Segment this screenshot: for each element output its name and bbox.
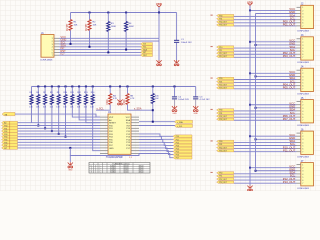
wire R11 top lead (71, 87, 73, 95)
svg-text:P41: P41 (219, 144, 222, 146)
svg-text:s_SCL: s_SCL (177, 126, 182, 128)
svg-text:10K: 10K (74, 24, 78, 26)
junction R15 top (152, 86, 154, 88)
wire stack row 9 to U1 (18, 147, 101, 149)
svg-text:DVPP: DVPP (84, 23, 88, 31)
svg-text:P17: P17 (176, 158, 179, 160)
wire row1 VCC (59, 37, 159, 39)
wire R5 bottom lead (31, 105, 33, 123)
wire row2 GND (59, 40, 159, 42)
svg-text:P02_OUT: P02_OUT (219, 22, 227, 24)
svg-text:P40: P40 (219, 141, 222, 143)
wire J2 pin6 (234, 22, 297, 24)
wire stack row 2 to U1 (18, 127, 101, 129)
svg-text:VDD: VDD (105, 99, 109, 105)
net label tick S2 (211, 46, 213, 47)
svg-text:GND: GND (68, 170, 73, 172)
wire J2 pin7 (234, 25, 297, 27)
junction bottom route (69, 147, 71, 149)
wire row y=49.6 (59, 49, 141, 51)
wire J6 GND (256, 138, 297, 140)
svg-text:0: 0 (95, 170, 96, 172)
svg-text:RESET: RESET (109, 123, 117, 125)
svg-text:CONF-DB03: CONF-DB03 (297, 93, 310, 95)
junction SDA/INT (152, 121, 154, 123)
connector J1 (41, 35, 54, 58)
wire VCC arrow stem (249, 5, 251, 10)
junction mid rail R7 (44, 86, 46, 88)
port stack S1 (4 bars) (217, 14, 234, 16)
junction R1/row3 (70, 43, 72, 45)
wire R10 top lead (65, 87, 67, 95)
junction R4/row5 (125, 49, 127, 51)
svg-text:1: 1 (95, 167, 96, 169)
wire R4 bottom lead (125, 32, 127, 50)
wire R2 top lead (89, 13, 91, 20)
wire s_SCL stub (96, 105, 110, 111)
port stack S5 (4 bars) (217, 140, 234, 142)
svg-text:VDD: VDD (247, 1, 253, 5)
wire R9 top lead (58, 87, 60, 95)
wire J4 pin7 (234, 88, 297, 90)
svg-text:P01: P01 (219, 18, 222, 20)
svg-text:P00: P00 (219, 15, 222, 17)
wire stack row 8 to U1 (18, 144, 101, 146)
wire s_SDA stub (128, 105, 153, 111)
wire R15 bottom lead (152, 104, 154, 122)
svg-text:L: L (100, 167, 101, 169)
wire R5 top lead (31, 87, 33, 95)
U1 right pin stubs (131, 116, 139, 118)
resistor R13 (84, 95, 87, 105)
J1 pin stubs 1-7 (54, 37, 59, 39)
svg-text:100nF 16V: 100nF 16V (181, 42, 192, 44)
svg-text:P30: P30 (219, 110, 222, 112)
svg-text:P20: P20 (219, 78, 222, 80)
svg-text:TCA6416 IIC address: TCA6416 IIC address (112, 162, 129, 165)
svg-text:P50: P50 (219, 173, 222, 175)
wire J5 GND (256, 107, 297, 109)
svg-text:GND: GND (172, 113, 177, 115)
svg-text:VDD: VDD (122, 99, 126, 105)
wire J4 pin6 (234, 85, 297, 87)
junction railA ch3 (249, 104, 251, 106)
wire R8 bottom lead (51, 105, 53, 132)
J5 pin stubs (297, 101, 301, 103)
svg-text:P23_OUT: P23_OUT (219, 88, 227, 90)
wire U1 pin SDA to port (139, 121, 175, 123)
capacitor C3 (193, 96, 198, 98)
ground GND1 (158, 60, 160, 63)
svg-text:P05_OUT: P05_OUT (283, 86, 296, 90)
wire C1 top lead (176, 13, 178, 41)
wire R2 bottom lead (89, 31, 91, 47)
wire bottom under U1 (70, 148, 139, 156)
svg-text:VDP: VDP (109, 117, 114, 119)
svg-text:P21: P21 (219, 81, 222, 83)
wire R10 bottom lead (65, 105, 67, 137)
svg-text:1: 1 (91, 167, 92, 169)
wire R12 to U1 pin2 (79, 105, 100, 120)
net label tick S6 (211, 172, 213, 173)
junction railB ch4 (255, 138, 257, 140)
svg-text:0x24(r): 0x24(r) (123, 172, 129, 174)
wire R8 top lead (51, 87, 53, 95)
svg-text:0: 0 (95, 165, 96, 167)
svg-text:0x21(w): 0x21(w) (110, 167, 116, 169)
svg-text:0x22(r): 0x22(r) (123, 167, 129, 169)
svg-text:L: L (100, 172, 101, 174)
connector J3 (301, 37, 314, 60)
resistor R5 (30, 95, 33, 105)
junction mid rail R11 (71, 86, 73, 88)
svg-text:P11: P11 (219, 50, 222, 52)
J4 pin stubs (297, 69, 301, 71)
wire J4 VCC (250, 72, 297, 74)
junction railB ch3 (255, 107, 257, 109)
ground GND6 (249, 185, 251, 188)
wire C2 top lead (174, 87, 176, 97)
wire J5 pin7 (234, 119, 297, 121)
wire J7 pin6 (234, 179, 297, 181)
svg-text:1: 1 (95, 172, 96, 174)
svg-text:VCC: VCC (126, 117, 131, 119)
svg-text:L: L (100, 165, 101, 167)
wire U1 pin SCL to port (139, 125, 175, 127)
wire stack row 0 to U1 (18, 122, 101, 124)
wire R14 to U1 pin13 (93, 105, 100, 151)
svg-text:0x22(w): 0x22(w) (110, 170, 116, 172)
svg-text:100K: 100K (129, 26, 135, 28)
svg-text:GND: GND (194, 113, 199, 115)
wire R3 top lead (107, 13, 109, 22)
resistor R15 (151, 94, 154, 104)
wire J2 pin4 (234, 16, 297, 18)
svg-text:3: 3 (91, 172, 92, 174)
wire J7 pin7 (234, 182, 297, 184)
svg-text:P52_OUT: P52_OUT (219, 179, 227, 181)
wire J6 pin7 (234, 151, 297, 153)
resistor R3 (107, 22, 110, 32)
wire J3 VCC (250, 41, 297, 43)
port stack P-A (5 bars) (141, 43, 153, 46)
wire J5 pin6 (234, 116, 297, 118)
port IN-EN single (2, 112, 15, 115)
wire C2 bottom lead (174, 99, 176, 106)
svg-text:0x21(r): 0x21(r) (123, 165, 129, 167)
svg-text:s_SDA: s_SDA (134, 107, 142, 110)
svg-text:P12_OUT: P12_OUT (219, 53, 227, 55)
wire VCC top rail (71, 12, 177, 14)
net label tick S5 (211, 140, 213, 141)
wire R1 top lead (70, 13, 72, 20)
junction railA ch0 (249, 9, 251, 11)
junction R4 top (125, 12, 127, 14)
wire J6 pin5 (234, 145, 297, 147)
wire J2 GND (256, 13, 297, 15)
ground GND3 (174, 106, 176, 109)
junction RA top (109, 86, 111, 88)
wire GND5 stem (69, 156, 71, 163)
junction R2/row4 (89, 46, 91, 48)
svg-text:CONF-DB03: CONF-DB03 (297, 62, 310, 64)
svg-text:CONF-DB03: CONF-DB03 (297, 188, 310, 190)
wire C3 bottom lead (195, 99, 197, 106)
svg-text:RST: RST (143, 55, 146, 57)
junction railB ch5 (255, 170, 257, 172)
wire J6 pin6 (234, 148, 297, 150)
wire R12 top lead (78, 87, 80, 95)
wire J5 VCC (250, 104, 297, 106)
wire R7 bottom lead (44, 105, 46, 129)
wire J2 pin5 (234, 19, 297, 21)
junction mid rail R14 (92, 86, 94, 88)
svg-text:4.7K: 4.7K (113, 98, 118, 100)
junction mid rail R10 (65, 86, 67, 88)
wire stack row 6 to U1 (18, 139, 101, 141)
svg-text:P33_OUT: P33_OUT (219, 119, 227, 121)
svg-text:0x23(r): 0x23(r) (123, 170, 129, 172)
wire J3 pin5 (234, 50, 297, 52)
wire J5 pin4 (234, 110, 297, 112)
wire J3 pin4 (234, 47, 297, 49)
svg-text:P31: P31 (219, 113, 222, 115)
port stack P-LEFT (10 bars) (2, 121, 18, 124)
net label tick S4 (211, 109, 213, 110)
net label tick S3 (211, 78, 213, 79)
svg-text:P22_OUT: P22_OUT (219, 84, 227, 86)
wire R1 bottom lead (70, 31, 72, 44)
wire R9 bottom lead (58, 105, 60, 134)
svg-text:10K: 10K (93, 24, 97, 26)
J2 pin stubs (297, 6, 301, 8)
wire stack row 3 to U1 (18, 130, 101, 132)
junction RB top (127, 86, 129, 88)
wire C3 top lead (195, 87, 197, 97)
wire C1 bottom lead (176, 43, 178, 60)
resistor R9 (57, 95, 60, 105)
wire row y=46.8 (59, 46, 141, 48)
capacitor C1 (174, 39, 179, 41)
resistor R7 (44, 95, 47, 105)
resistor RA (109, 94, 112, 105)
svg-text:P01_OUT: P01_OUT (283, 23, 296, 27)
U1 left pin stubs (100, 116, 108, 118)
svg-text:GND: GND (109, 148, 114, 150)
svg-text:s_SCL: s_SCL (97, 107, 105, 110)
junction VCC rail (158, 12, 160, 14)
wire stack row 5 to U1 (18, 136, 101, 138)
svg-text:4.7K: 4.7K (130, 98, 135, 100)
resistor RB (126, 94, 129, 105)
junction mid rail R12 (78, 86, 80, 88)
svg-text:0x23(w): 0x23(w) (110, 172, 116, 174)
junction railA ch2 (249, 72, 251, 74)
J3 pin stubs (297, 38, 301, 40)
wire J6 pin4 (234, 141, 297, 143)
wire R11 to U1 pin1 (72, 105, 100, 118)
junction R2 top (89, 12, 91, 14)
svg-text:P51: P51 (219, 176, 222, 178)
wire J3 GND (256, 44, 297, 46)
svg-text:P13_OUT: P13_OUT (219, 56, 227, 58)
wire row y=43.9 (59, 43, 141, 45)
svg-text:P03_OUT: P03_OUT (219, 25, 227, 27)
ground GND5 (69, 162, 71, 165)
connector J4 (301, 68, 314, 91)
wire J7 VCC (250, 167, 297, 169)
svg-text:SDA: SDA (126, 119, 131, 122)
wire stack row 1 to U1 (18, 125, 101, 127)
J7 pin stubs (297, 164, 301, 166)
wire J3 pin7 (234, 56, 297, 58)
wire stack row 7 to U1 (18, 141, 101, 143)
junction R15/s_SDA (152, 109, 154, 111)
svg-text:CONF-DB03: CONF-DB03 (297, 125, 310, 127)
junction C2 top (174, 86, 176, 88)
svg-text:s_SDA: s_SDA (177, 121, 183, 124)
IC U1 TCA6416 body (108, 114, 131, 154)
svg-text:L: L (100, 170, 101, 172)
connector J2 (301, 5, 314, 28)
port stack S3 (4 bars) (217, 77, 234, 79)
ground GND4 (195, 106, 197, 109)
resistor R4 (125, 22, 128, 32)
wire rail GND vertical (255, 14, 257, 171)
svg-text:DVPP: DVPP (65, 23, 69, 31)
resistor R14 (91, 95, 94, 105)
wire R14 top lead (92, 87, 94, 95)
wire R13 to U1 pin3 (86, 105, 100, 123)
port stack P1X (8 bars) (173, 135, 192, 138)
svg-text:CONF-DB05: CONF-DB05 (40, 59, 53, 61)
wire mid VCC rail (32, 86, 196, 88)
svg-text:P53_OUT: P53_OUT (219, 182, 227, 184)
port stack S6 (4 bars) (217, 172, 234, 174)
svg-text:2: 2 (91, 170, 92, 172)
wire J4 pin5 (234, 82, 297, 84)
wire R6 bottom lead (37, 105, 39, 126)
svg-text:INT: INT (4, 148, 7, 150)
ground GND2 (176, 60, 178, 63)
svg-text:0x20(w): 0x20(w) (110, 165, 116, 167)
junction mid rail R13 (85, 86, 87, 88)
junction railA ch5 (249, 167, 251, 169)
port stack P-I2C (2 bars) (175, 120, 193, 123)
wire VCC symbol stem (158, 7, 160, 13)
wire RA top lead (109, 87, 111, 94)
wire R13 top lead (85, 87, 87, 95)
svg-text:100nF 16V: 100nF 16V (178, 99, 189, 101)
junction mid rail R8 (51, 86, 53, 88)
svg-text:100K: 100K (111, 26, 117, 28)
wire J4 GND (256, 75, 297, 77)
wire J7 pin5 (234, 176, 297, 178)
wire R6 top lead (37, 87, 39, 95)
resistor R6 (37, 95, 40, 105)
svg-text:P42_OUT: P42_OUT (219, 147, 227, 149)
wires U1 P10-P17 to ports (139, 134, 173, 136)
ground GND-mid (119, 99, 121, 102)
connector J5 (301, 100, 314, 123)
resistor R12 (78, 95, 81, 105)
wire R4 top lead (125, 13, 127, 22)
junction mid rail R6 (37, 86, 39, 88)
wire R3 bottom lead (107, 32, 109, 53)
junction R3/row6 (107, 51, 109, 53)
resistor R11 (71, 95, 74, 105)
wire stack row 4 to U1 (18, 133, 101, 135)
port stack S2 (4 bars) (217, 46, 234, 48)
svg-text:U1: U1 (108, 110, 112, 114)
junction R6/row1 (37, 125, 39, 127)
svg-text:CONF-DB03: CONF-DB03 (297, 156, 310, 158)
svg-text:P13_OUT: P13_OUT (283, 180, 296, 184)
wire VCC drop (158, 13, 160, 39)
wire J2 VCC (250, 9, 297, 11)
svg-text:P32_OUT: P32_OUT (219, 116, 227, 118)
wire RB top lead (127, 87, 129, 94)
junction railA ch1 (249, 41, 251, 43)
wire EN to U1 pin1 (15, 114, 100, 117)
wire mid ground stem (119, 87, 121, 100)
J6 pin stubs (297, 132, 301, 134)
table pin-map (89, 163, 150, 174)
svg-text:P10: P10 (219, 47, 222, 49)
wire row y=52.4 (59, 51, 141, 53)
junction railB ch2 (255, 75, 257, 77)
wire R15 top lead (152, 87, 154, 94)
svg-text:P07_OUT: P07_OUT (283, 117, 296, 121)
resistor R1 (69, 20, 72, 31)
wire J5 pin5 (234, 113, 297, 115)
junction mid rail R9 (58, 86, 60, 88)
connector J6 (301, 131, 314, 154)
svg-text:P03_OUT: P03_OUT (283, 54, 296, 58)
resistor R10 (64, 95, 67, 105)
junction R3 top (107, 12, 109, 14)
svg-text:CONF-DB03: CONF-DB03 (297, 31, 310, 33)
junction R7/row2 (44, 127, 46, 129)
connector J7 (301, 163, 314, 186)
net label tick S1 (211, 15, 213, 16)
junction R10/row5 (65, 136, 67, 138)
junction railB ch1 (255, 44, 257, 46)
wire J7 GND (256, 170, 297, 172)
wire J6 VCC (250, 135, 297, 137)
svg-text:P11_OUT: P11_OUT (283, 148, 296, 152)
wire R7 top lead (44, 87, 46, 95)
svg-text:VDD: VDD (156, 2, 162, 6)
capacitor C2 (172, 96, 177, 98)
junction railA ch4 (249, 135, 251, 137)
resistor R2 (88, 20, 91, 31)
wire J3 pin6 (234, 53, 297, 55)
port stack S4 (4 bars) (217, 109, 234, 111)
svg-text:TCA6416APWR: TCA6416APWR (106, 156, 123, 159)
wire J4 pin4 (234, 79, 297, 81)
wire J7 pin4 (234, 173, 297, 175)
wire rail VCC vertical (249, 10, 251, 185)
resistor R8 (50, 95, 53, 105)
junction mid ground (119, 86, 121, 88)
wire GND drop (158, 38, 160, 60)
svg-text:4.7uF 16V: 4.7uF 16V (200, 99, 211, 101)
svg-text:P43_OUT: P43_OUT (219, 150, 227, 152)
junction R8/row3 (51, 130, 53, 132)
wire row y=55.2 (59, 54, 141, 56)
junction R9/row4 (58, 133, 60, 135)
